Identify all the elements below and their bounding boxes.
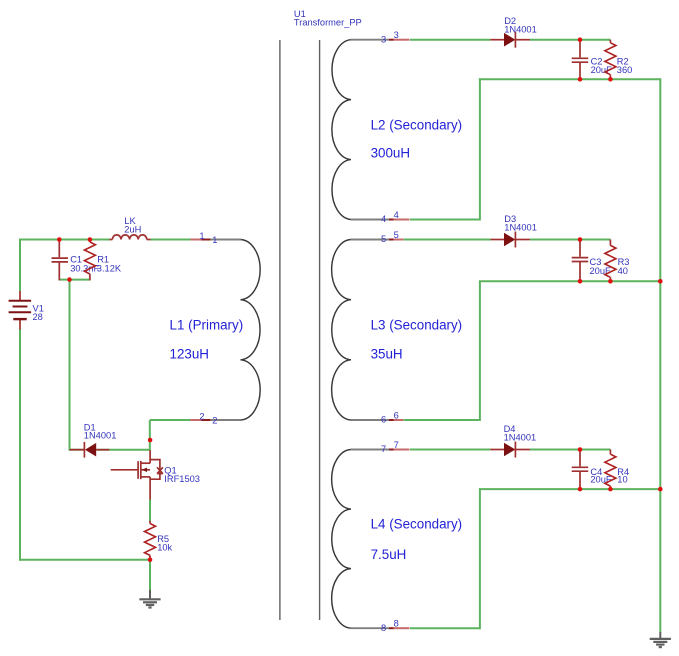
wire D4 to R4	[530, 449, 611, 451]
diode D2	[490, 32, 530, 48]
label L1 (Primary)	[170, 318, 244, 333]
svg-text:1: 1	[199, 231, 204, 241]
label 123uH	[170, 347, 209, 362]
junction node R3 bottom	[608, 279, 613, 284]
ground right	[650, 632, 671, 647]
svg-text:2: 2	[212, 416, 217, 426]
svg-text:5: 5	[381, 234, 386, 244]
transistor Q1	[111, 450, 163, 499]
label C1 30.3nF	[70, 255, 99, 274]
svg-text:10k: 10k	[157, 543, 172, 553]
wire pin6 riser	[479, 281, 481, 421]
label 35uH	[371, 347, 403, 362]
svg-text:35uH: 35uH	[371, 347, 403, 362]
label L2 (Secondary)	[371, 118, 463, 133]
svg-text:7.5uH: 7.5uH	[371, 547, 407, 562]
pin 2 lead	[190, 419, 210, 421]
capacitor C4	[572, 450, 589, 490]
svg-text:L4 (Secondary): L4 (Secondary)	[371, 517, 463, 532]
wire pin6 horizontal	[404, 419, 480, 421]
diode D4	[490, 442, 530, 458]
wire pin2 vertical	[149, 420, 151, 450]
label 7.5uH	[371, 547, 407, 562]
label R3 40	[618, 257, 630, 276]
label D3 1N4001	[504, 214, 537, 232]
junction node C3 bottom	[578, 279, 583, 284]
wire output rail 1	[479, 78, 660, 80]
wire pin8 riser	[479, 489, 481, 629]
capacitor C1	[52, 239, 69, 281]
svg-text:123uH: 123uH	[170, 347, 209, 362]
svg-text:L3 (Secondary): L3 (Secondary)	[371, 318, 463, 333]
junction node C2 top	[578, 37, 583, 42]
wire left rail upper	[19, 239, 21, 292]
svg-text:8: 8	[381, 623, 386, 633]
svg-text:28: 28	[33, 312, 43, 322]
svg-text:300uH: 300uH	[371, 146, 410, 161]
svg-text:3: 3	[394, 30, 399, 40]
label R5 10k	[157, 534, 172, 553]
svg-text:7: 7	[394, 440, 399, 450]
svg-text:1N4001: 1N4001	[504, 24, 537, 34]
label LK 2uH	[124, 216, 141, 234]
wire bottom left horizontal	[19, 559, 150, 561]
label D1 1N4001	[84, 422, 117, 440]
pin 6 numbers	[381, 410, 399, 424]
wire pin2 horizontal	[150, 419, 191, 421]
wire D3 to R3	[530, 239, 611, 241]
pin 1 lead	[190, 239, 210, 241]
inductor L3 secondary winding	[332, 240, 389, 421]
pin 8 numbers	[381, 619, 399, 633]
wire Q1 source to R5	[149, 499, 151, 521]
svg-text:10: 10	[617, 475, 627, 485]
capacitor C2	[572, 40, 589, 80]
junction node C3 top	[578, 237, 583, 242]
junction node R1 top	[88, 237, 93, 242]
resistor R4	[605, 450, 616, 490]
wire pin3 to D2	[410, 39, 490, 41]
wire pin4 horizontal	[410, 219, 480, 221]
svg-text:1N4001: 1N4001	[504, 433, 537, 443]
wire left rail lower	[19, 329, 21, 561]
junction node Q1 drain	[148, 438, 153, 443]
wire output rail 3	[479, 488, 660, 490]
wire D1 to Q1 drain	[70, 449, 85, 451]
label Q1 IRF1503	[164, 466, 200, 485]
inductor L4 secondary winding	[332, 450, 389, 629]
label 300uH	[371, 146, 410, 161]
inductor LK	[110, 235, 151, 240]
transformer U1 core	[280, 40, 320, 620]
svg-text:L2 (Secondary): L2 (Secondary)	[371, 118, 463, 133]
label R1 3.12K	[97, 255, 122, 274]
label C3 20uF	[590, 257, 612, 276]
wire LK to pin1	[150, 239, 191, 241]
ground left	[139, 590, 160, 608]
junction node C2 bottom	[578, 77, 583, 82]
svg-text:4: 4	[381, 214, 386, 224]
pin 5 numbers	[381, 230, 399, 244]
svg-text:1N4001: 1N4001	[84, 431, 117, 441]
svg-text:20uF: 20uF	[590, 475, 612, 485]
pin 8 lead	[389, 627, 410, 629]
junction node rail2 right	[658, 279, 663, 284]
pin 4 numbers	[381, 210, 399, 224]
wire pin5 to D3	[404, 239, 491, 241]
svg-text:20uF: 20uF	[590, 266, 612, 276]
pin 7 numbers	[381, 440, 399, 454]
pin 7 lead	[389, 449, 410, 451]
pin 6 lead	[389, 419, 403, 421]
wire R5 to ground	[149, 557, 151, 591]
wire output rail 2	[479, 280, 660, 282]
svg-text:7: 7	[381, 444, 386, 454]
label C4 20uF	[590, 467, 612, 485]
junction node rail3 right	[658, 487, 663, 492]
label D4 1N4001	[504, 424, 537, 442]
label D2 1N4001	[504, 16, 537, 34]
wire D1 cathode horizontal	[96, 449, 150, 451]
svg-text:3.12K: 3.12K	[97, 263, 122, 273]
label L3 (Secondary)	[371, 318, 463, 333]
resistor R2	[605, 40, 616, 80]
junction node R4 bottom	[608, 487, 613, 492]
svg-text:2uH: 2uH	[124, 225, 141, 235]
wire pin7 to D4	[410, 449, 490, 451]
svg-text:40: 40	[618, 266, 628, 276]
svg-text:360: 360	[617, 65, 633, 75]
svg-text:L1 (Primary): L1 (Primary)	[170, 318, 244, 333]
resistor R1	[84, 239, 95, 281]
label L4 (Secondary)	[371, 517, 463, 532]
label R4 10	[617, 467, 629, 485]
wire pin4 riser	[479, 78, 481, 220]
junction node R5 bottom	[148, 557, 153, 562]
inductor L2 secondary winding	[332, 40, 389, 220]
pin 4 lead	[389, 219, 410, 221]
junction node R2 bottom	[608, 77, 613, 82]
junction node C1 top	[57, 237, 62, 242]
battery V1	[9, 291, 32, 329]
svg-text:6: 6	[381, 415, 386, 425]
resistor R3	[605, 240, 616, 283]
diode D3	[491, 232, 530, 248]
inductor L1 primary winding	[210, 240, 260, 421]
svg-text:2: 2	[199, 412, 204, 422]
label C2 20uF	[591, 56, 613, 75]
wire right edge	[659, 78, 661, 632]
label V1 28	[33, 303, 44, 322]
svg-text:1: 1	[212, 235, 217, 245]
pin 3 numbers	[381, 30, 399, 44]
svg-text:5: 5	[394, 230, 399, 240]
capacitor C3	[572, 240, 589, 283]
label R2 360	[617, 56, 633, 75]
svg-text:4: 4	[394, 210, 399, 220]
svg-text:Transformer_PP: Transformer_PP	[294, 18, 362, 28]
wire C1-R1 bottom rail	[59, 279, 90, 281]
junction node C4 top	[578, 447, 583, 452]
diode D1	[70, 442, 110, 458]
svg-text:1N4001: 1N4001	[504, 222, 537, 232]
pin 3 lead	[389, 39, 410, 41]
svg-text:8: 8	[394, 619, 399, 629]
label U1 Transformer_PP	[294, 9, 362, 28]
pin 5 lead	[389, 239, 403, 241]
junction node C4 bottom	[578, 487, 583, 492]
pin 1 numbers	[199, 231, 217, 245]
junction node C1 R1 bottom	[67, 277, 72, 282]
wire pin8 horizontal	[410, 627, 480, 629]
wire D2 to R2	[530, 39, 611, 41]
svg-text:6: 6	[394, 410, 399, 420]
pin 2 numbers	[199, 412, 217, 426]
wire top-left rail	[20, 239, 110, 241]
wire node to D1 vertical	[69, 280, 71, 451]
svg-text:3: 3	[381, 34, 386, 44]
resistor R5	[145, 521, 156, 559]
svg-text:IRF1503: IRF1503	[164, 474, 200, 484]
